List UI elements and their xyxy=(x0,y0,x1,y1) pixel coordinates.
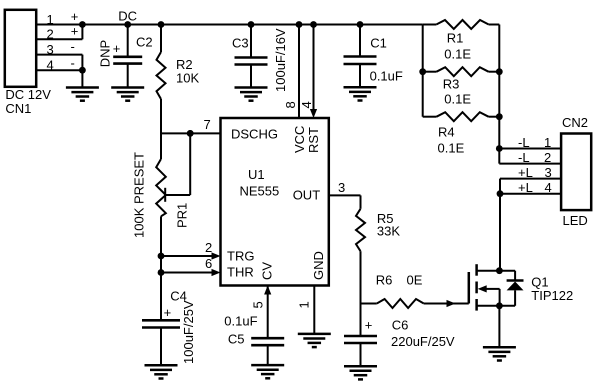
svg-text:1: 1 xyxy=(544,135,551,150)
svg-text:U1: U1 xyxy=(248,167,265,182)
svg-text:VCC: VCC xyxy=(292,126,307,153)
svg-text:+: + xyxy=(71,24,79,39)
svg-text:+: + xyxy=(113,41,121,56)
svg-text:PR1: PR1 xyxy=(175,203,190,228)
svg-text:-: - xyxy=(71,39,75,54)
svg-text:DC: DC xyxy=(118,9,137,24)
svg-text:LED: LED xyxy=(563,213,588,228)
svg-text:6: 6 xyxy=(205,256,212,271)
svg-text:33K: 33K xyxy=(377,224,400,239)
svg-text:4: 4 xyxy=(47,57,54,72)
svg-text:2: 2 xyxy=(205,240,212,255)
svg-text:0.1E: 0.1E xyxy=(444,46,471,61)
svg-text:R1: R1 xyxy=(447,30,464,45)
svg-text:+L: +L xyxy=(518,165,533,180)
svg-text:7: 7 xyxy=(204,117,211,132)
svg-text:+: + xyxy=(164,305,172,320)
svg-text:2: 2 xyxy=(47,27,54,42)
svg-text:8: 8 xyxy=(283,101,298,108)
svg-text:RST: RST xyxy=(306,127,321,153)
svg-text:10K: 10K xyxy=(176,71,199,86)
svg-text:-: - xyxy=(71,55,75,70)
svg-text:CN1: CN1 xyxy=(5,101,31,116)
svg-text:OUT: OUT xyxy=(293,188,321,203)
svg-text:1: 1 xyxy=(297,301,312,308)
svg-text:C3: C3 xyxy=(232,36,249,51)
svg-text:100uF/25V: 100uF/25V xyxy=(181,300,196,364)
svg-text:3: 3 xyxy=(545,165,552,180)
svg-text:2: 2 xyxy=(544,150,551,165)
svg-text:CN2: CN2 xyxy=(562,115,588,130)
svg-text:R6: R6 xyxy=(376,273,393,288)
svg-text:C6: C6 xyxy=(392,317,409,332)
svg-text:THR: THR xyxy=(227,265,254,280)
svg-text:100K PRESET: 100K PRESET xyxy=(132,152,147,238)
svg-text:C5: C5 xyxy=(228,332,245,347)
svg-text:DNP: DNP xyxy=(98,40,113,67)
svg-text:TIP122: TIP122 xyxy=(531,288,573,303)
svg-text:4: 4 xyxy=(545,180,552,195)
svg-text:0.1E: 0.1E xyxy=(438,141,465,156)
svg-text:1: 1 xyxy=(47,12,54,27)
svg-text:DSCHG: DSCHG xyxy=(231,126,278,141)
svg-text:R3: R3 xyxy=(443,76,460,91)
svg-text:4: 4 xyxy=(299,101,314,108)
svg-text:GND: GND xyxy=(311,251,326,280)
svg-text:+L: +L xyxy=(518,180,533,195)
svg-text:+: + xyxy=(365,318,373,333)
svg-text:0.1uF: 0.1uF xyxy=(370,68,403,83)
svg-text:TRG: TRG xyxy=(227,249,254,264)
svg-text:100uF/16V: 100uF/16V xyxy=(273,28,288,92)
svg-text:3: 3 xyxy=(338,180,345,195)
svg-text:0E: 0E xyxy=(407,273,423,288)
svg-text:R4: R4 xyxy=(438,124,455,139)
svg-text:CV: CV xyxy=(260,262,275,280)
svg-text:DC 12V: DC 12V xyxy=(5,87,51,102)
svg-text:5: 5 xyxy=(251,301,266,308)
svg-text:-L: -L xyxy=(518,135,530,150)
svg-text:3: 3 xyxy=(47,42,54,57)
svg-text:-L: -L xyxy=(518,150,530,165)
svg-text:C2: C2 xyxy=(136,35,153,50)
svg-text:0.1uF: 0.1uF xyxy=(224,314,257,329)
svg-text:220uF/25V: 220uF/25V xyxy=(391,334,455,349)
svg-text:C1: C1 xyxy=(370,36,387,51)
svg-text:NE555: NE555 xyxy=(240,184,280,199)
svg-text:+: + xyxy=(71,9,79,24)
svg-text:0.1E: 0.1E xyxy=(444,91,471,106)
